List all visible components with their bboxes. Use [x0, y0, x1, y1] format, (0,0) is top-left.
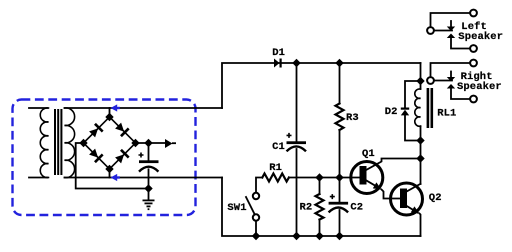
- power supply module dashed outline box: [13, 100, 196, 216]
- capacitor C0 curved plate: [139, 167, 158, 172]
- wire bridge arm left-top: [84, 117, 110, 143]
- ground symbol stub: [148, 189, 150, 201]
- bridge diode arm left-top: [89, 128, 98, 137]
- capacitor C2 plates: [329, 202, 349, 205]
- resistor R2 top lead: [319, 178, 321, 195]
- relay RL1 coil lead top: [420, 81, 422, 89]
- diode D2 symbol: [401, 108, 409, 110]
- svg-text:D1: D1: [272, 47, 285, 59]
- wire bridge negative return to ground node: [76, 143, 149, 189]
- right speaker common wires: [431, 63, 471, 77]
- diode D2 anode lead: [405, 115, 421, 140]
- capacitor C0 plus: [139, 153, 144, 158]
- capacitor C2 curved plate: [329, 208, 349, 213]
- right speaker common terminal: [427, 77, 434, 84]
- node bottom rail / SW1: [252, 232, 260, 240]
- capacitor C2 bottom lead: [339, 210, 341, 236]
- plus polarity marks: [139, 133, 335, 199]
- resistor R2 zigzag: [316, 194, 324, 220]
- right speaker moving contact arrows: [447, 77, 455, 82]
- left speaker bottom terminal: [470, 45, 477, 52]
- switch SW1 top contact: [253, 193, 259, 199]
- transistor Q1 emitter arrow: [373, 182, 382, 189]
- capacitor C1 plates: [287, 141, 307, 144]
- bridge diode arm top-right: [115, 123, 124, 132]
- right speaker moving contact stem: [450, 72, 452, 78]
- right speaker NO contact wire: [451, 89, 470, 100]
- wire relay to collectors: [420, 141, 422, 185]
- capacitor C0 plates: [139, 160, 159, 163]
- node Q1 collector join: [416, 154, 424, 162]
- relay RL1 coil: [415, 89, 421, 126]
- node bridge bottom: [105, 165, 113, 173]
- wire Q2 emitter: [407, 206, 418, 212]
- wire DC output node: [136, 142, 167, 144]
- wire SW1 top stub: [256, 178, 262, 193]
- resistor R3 top lead: [339, 63, 341, 104]
- svg-text:Q1: Q1: [362, 148, 375, 160]
- svg-text:R1: R1: [269, 162, 282, 174]
- wire bridge arm left-bottom: [84, 143, 110, 169]
- diode D1: [274, 59, 280, 68]
- blue module connection arrows: [111, 104, 120, 181]
- node relay top: [416, 77, 424, 85]
- node base rail / R2: [315, 173, 323, 181]
- right speaker top terminal: [470, 60, 477, 67]
- wire bottom riser and ground rail: [222, 178, 421, 237]
- node bottom rail / C2: [335, 232, 343, 240]
- wire secondary top rail: [65, 107, 223, 109]
- svg-text:C1: C1: [272, 141, 285, 153]
- wire relay feed riser: [420, 63, 422, 81]
- DC output arrow: [165, 139, 173, 148]
- svg-text:Q2: Q2: [429, 192, 442, 204]
- svg-text:RL1: RL1: [437, 108, 456, 120]
- wire base rail R1 to Q1: [289, 177, 360, 179]
- left speaker moving contact stem: [450, 21, 452, 27]
- node bridge top: [105, 113, 113, 121]
- capacitor C1 top lead: [296, 63, 298, 141]
- capacitor curved plates: [139, 146, 348, 212]
- diode D2 cathode lead: [405, 81, 421, 108]
- node bottom rail / R2: [315, 232, 323, 240]
- relay RL1 core: [427, 88, 430, 128]
- svg-text:C2: C2: [350, 202, 363, 214]
- resistor R2 bottom lead: [319, 220, 321, 237]
- blue arrow top rail: [111, 104, 118, 111]
- left speaker top terminal: [470, 10, 477, 17]
- capacitor C0 filter bottom lead: [148, 169, 150, 188]
- node relay bottom / D2: [416, 136, 424, 144]
- svg-text:R3: R3: [346, 112, 359, 124]
- node ground: [144, 184, 152, 192]
- relay RL1 coil lead bottom: [420, 126, 422, 140]
- left speaker common terminal: [427, 27, 434, 34]
- transformer T1 core: [54, 109, 56, 175]
- capacitor C1 plus: [287, 133, 292, 138]
- wire SW1 bottom stub: [255, 221, 257, 236]
- svg-text:Speaker: Speaker: [457, 81, 502, 93]
- left speaker moving contact arrows: [447, 27, 455, 32]
- transistor Q1 base bar: [360, 166, 367, 185]
- transformer T1 primary bottom lead: [29, 177, 48, 179]
- node bottom rail / C1: [292, 232, 300, 240]
- left speaker common wires: [431, 13, 471, 27]
- node top rail / C1: [292, 59, 300, 67]
- transistor Q2 base bar: [400, 189, 407, 209]
- wire Q1 collector: [367, 159, 421, 170]
- capacitor C2 top lead: [339, 178, 341, 202]
- transistor Q2 circle: [391, 183, 423, 215]
- svg-text:R2: R2: [300, 202, 313, 214]
- wire bridge arm top-right: [110, 117, 136, 143]
- bridge rectifier diodes: [89, 123, 130, 164]
- switch SW1 bottom contact: [253, 214, 259, 220]
- ground symbol bars: [143, 200, 155, 202]
- wire bridge arm bottom-right: [110, 143, 136, 169]
- right speaker bottom terminal: [470, 96, 477, 103]
- wire bridge top stub: [109, 108, 111, 117]
- node bridge right: [131, 139, 139, 147]
- left speaker NO contact wire: [451, 38, 470, 49]
- capacitor C1 curved plate: [287, 146, 307, 151]
- svg-text:D2: D2: [385, 106, 398, 118]
- svg-text:Speaker: Speaker: [458, 31, 503, 43]
- filled black component symbols: [139, 27, 455, 214]
- bridge diode arm left-bottom: [89, 149, 98, 158]
- wire Q2 collector: [407, 184, 421, 192]
- resistor R1 zigzag: [262, 174, 289, 182]
- capacitor C2 plus: [330, 194, 335, 199]
- blue arrow bottom rail: [111, 174, 118, 181]
- svg-text:SW1: SW1: [227, 202, 246, 214]
- wire Q1 emitter to Q2 base: [367, 181, 379, 188]
- resistor R3 zigzag: [336, 104, 344, 131]
- transistor Q2 emitter arrow: [411, 206, 420, 213]
- switch SW1 blade: [246, 197, 255, 214]
- bridge diode arm bottom-right: [115, 154, 124, 163]
- transformer T1 primary top lead: [29, 107, 48, 109]
- capacitor C1 bottom lead: [296, 149, 298, 236]
- transistor Q1 circle: [351, 162, 383, 194]
- wire bridge bottom stub: [109, 169, 111, 178]
- capacitor C0 filter top lead: [148, 143, 150, 160]
- resistor R3 bottom lead: [339, 130, 341, 178]
- node top rail / R3: [335, 59, 343, 67]
- reference designator labels: [227, 21, 503, 214]
- node base rail / C2: [335, 173, 343, 181]
- node DC output: [144, 139, 152, 147]
- open contact circles: [253, 10, 477, 221]
- wire secondary bottom rail: [65, 177, 223, 179]
- node bridge left: [79, 139, 87, 147]
- transformer T1 secondary winding: [65, 108, 75, 178]
- wire top rail from supply riser: [222, 63, 421, 108]
- transformer T1 primary winding: [40, 108, 48, 178]
